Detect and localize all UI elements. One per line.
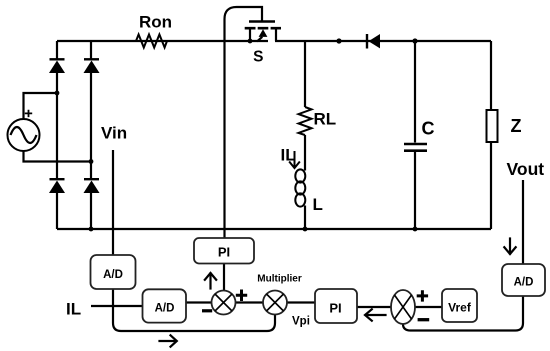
diode D2 (84, 59, 100, 73)
wire RL to L (304, 135, 306, 171)
label minus summer1 (202, 309, 212, 312)
junction dot top bus mid (336, 38, 341, 43)
wire PI2 to summer2 (357, 306, 391, 308)
wire PI1 to summer1 (223, 264, 225, 292)
diode D4 (84, 179, 100, 193)
wire multiplier to PI2 (287, 301, 315, 303)
diode D5 boost (367, 34, 380, 49)
svg-text:Z: Z (511, 116, 522, 136)
junction dot top bus capacitor (412, 38, 417, 43)
wire bottom bus (57, 228, 491, 230)
wire summer2 to Vref (415, 306, 442, 308)
arrow left between PI2 and summer2 (365, 309, 386, 320)
svg-text:IL: IL (66, 300, 81, 319)
summer 1 (circle with X) (212, 291, 236, 315)
wire top bus right segment (275, 40, 491, 42)
wire ac source bottom (24, 151, 92, 162)
block Vref (442, 289, 477, 322)
junction dot ac bottom to bridge (89, 159, 94, 164)
block PI 2 (315, 289, 357, 323)
block PI 1 (194, 238, 254, 264)
wire capacitor branch bottom (414, 152, 416, 229)
svg-text:A/D: A/D (155, 303, 175, 315)
wire summer1 to multiplier (236, 301, 264, 303)
ac source V1 (8, 119, 40, 151)
svg-text:Vout: Vout (507, 159, 545, 179)
label plus summer2 (417, 290, 428, 301)
wire Z branch (490, 41, 492, 229)
arrow right on feedback bus (160, 335, 177, 346)
svg-text:S: S (253, 49, 263, 66)
svg-text:Multiplier: Multiplier (257, 274, 302, 285)
inductor L (295, 169, 305, 206)
multiplier M1 (circle with X) (263, 291, 287, 315)
wire IL input (91, 305, 142, 307)
junction dot top bus mosfet source (248, 39, 253, 44)
wire ac source top (24, 93, 58, 119)
capacitor C (404, 144, 427, 151)
wire gate drive loop (225, 7, 263, 238)
svg-text:PI: PI (218, 245, 230, 260)
svg-text:Ron: Ron (139, 13, 172, 32)
label plus summer1 (236, 290, 247, 302)
svg-text:A/D: A/D (103, 269, 123, 281)
block A/D 3 (Vout) (502, 264, 545, 296)
svg-text:Vref: Vref (448, 301, 472, 315)
junction dot bottom bus capacitor (413, 227, 418, 232)
plus polarity mark (25, 110, 32, 117)
resistor Ron (136, 35, 167, 48)
svg-text:C: C (422, 119, 435, 139)
wire A/D3 feedback to summer2 (403, 296, 523, 331)
svg-text:A/D: A/D (514, 277, 534, 289)
wire L to bottom bus (304, 206, 306, 230)
junction dot bottom bus bridge (89, 227, 94, 232)
transistor S (MOSFET) (245, 22, 281, 42)
wire bridge left leg (56, 41, 58, 229)
block A/D 1 (Vin) (91, 255, 136, 289)
wire Vin sense line (112, 150, 114, 255)
load Z (487, 110, 498, 142)
wire A/D1 feedback to multiplier (113, 289, 275, 331)
wire A/D2 to summer1 (186, 301, 212, 303)
block A/D 2 (IL) (143, 289, 187, 322)
svg-text:L: L (313, 195, 323, 214)
diode D3 (49, 179, 65, 193)
wire Vout sense (522, 180, 524, 264)
arrow down at Vout sense (504, 239, 515, 255)
svg-text:IL: IL (281, 146, 296, 165)
svg-text:Vin: Vin (101, 124, 127, 143)
wire capacitor branch top (414, 41, 416, 143)
wire bridge right leg (90, 41, 92, 229)
svg-text:Vpi: Vpi (292, 316, 310, 328)
svg-text:RL: RL (314, 110, 337, 129)
label minus summer2 (418, 318, 430, 321)
diode D1 (49, 59, 65, 73)
junction dot bottom bus inductor (303, 227, 308, 232)
arrow IL down (290, 152, 299, 168)
wire RL branch top (304, 41, 306, 107)
resistor RL (299, 107, 312, 135)
svg-text:PI: PI (329, 301, 341, 316)
summer 2 (ellipse with X) (391, 290, 415, 324)
arrow up at summer1 (205, 273, 216, 289)
wire top bus left segment (57, 40, 268, 42)
junction dot ac top to bridge (55, 91, 60, 96)
